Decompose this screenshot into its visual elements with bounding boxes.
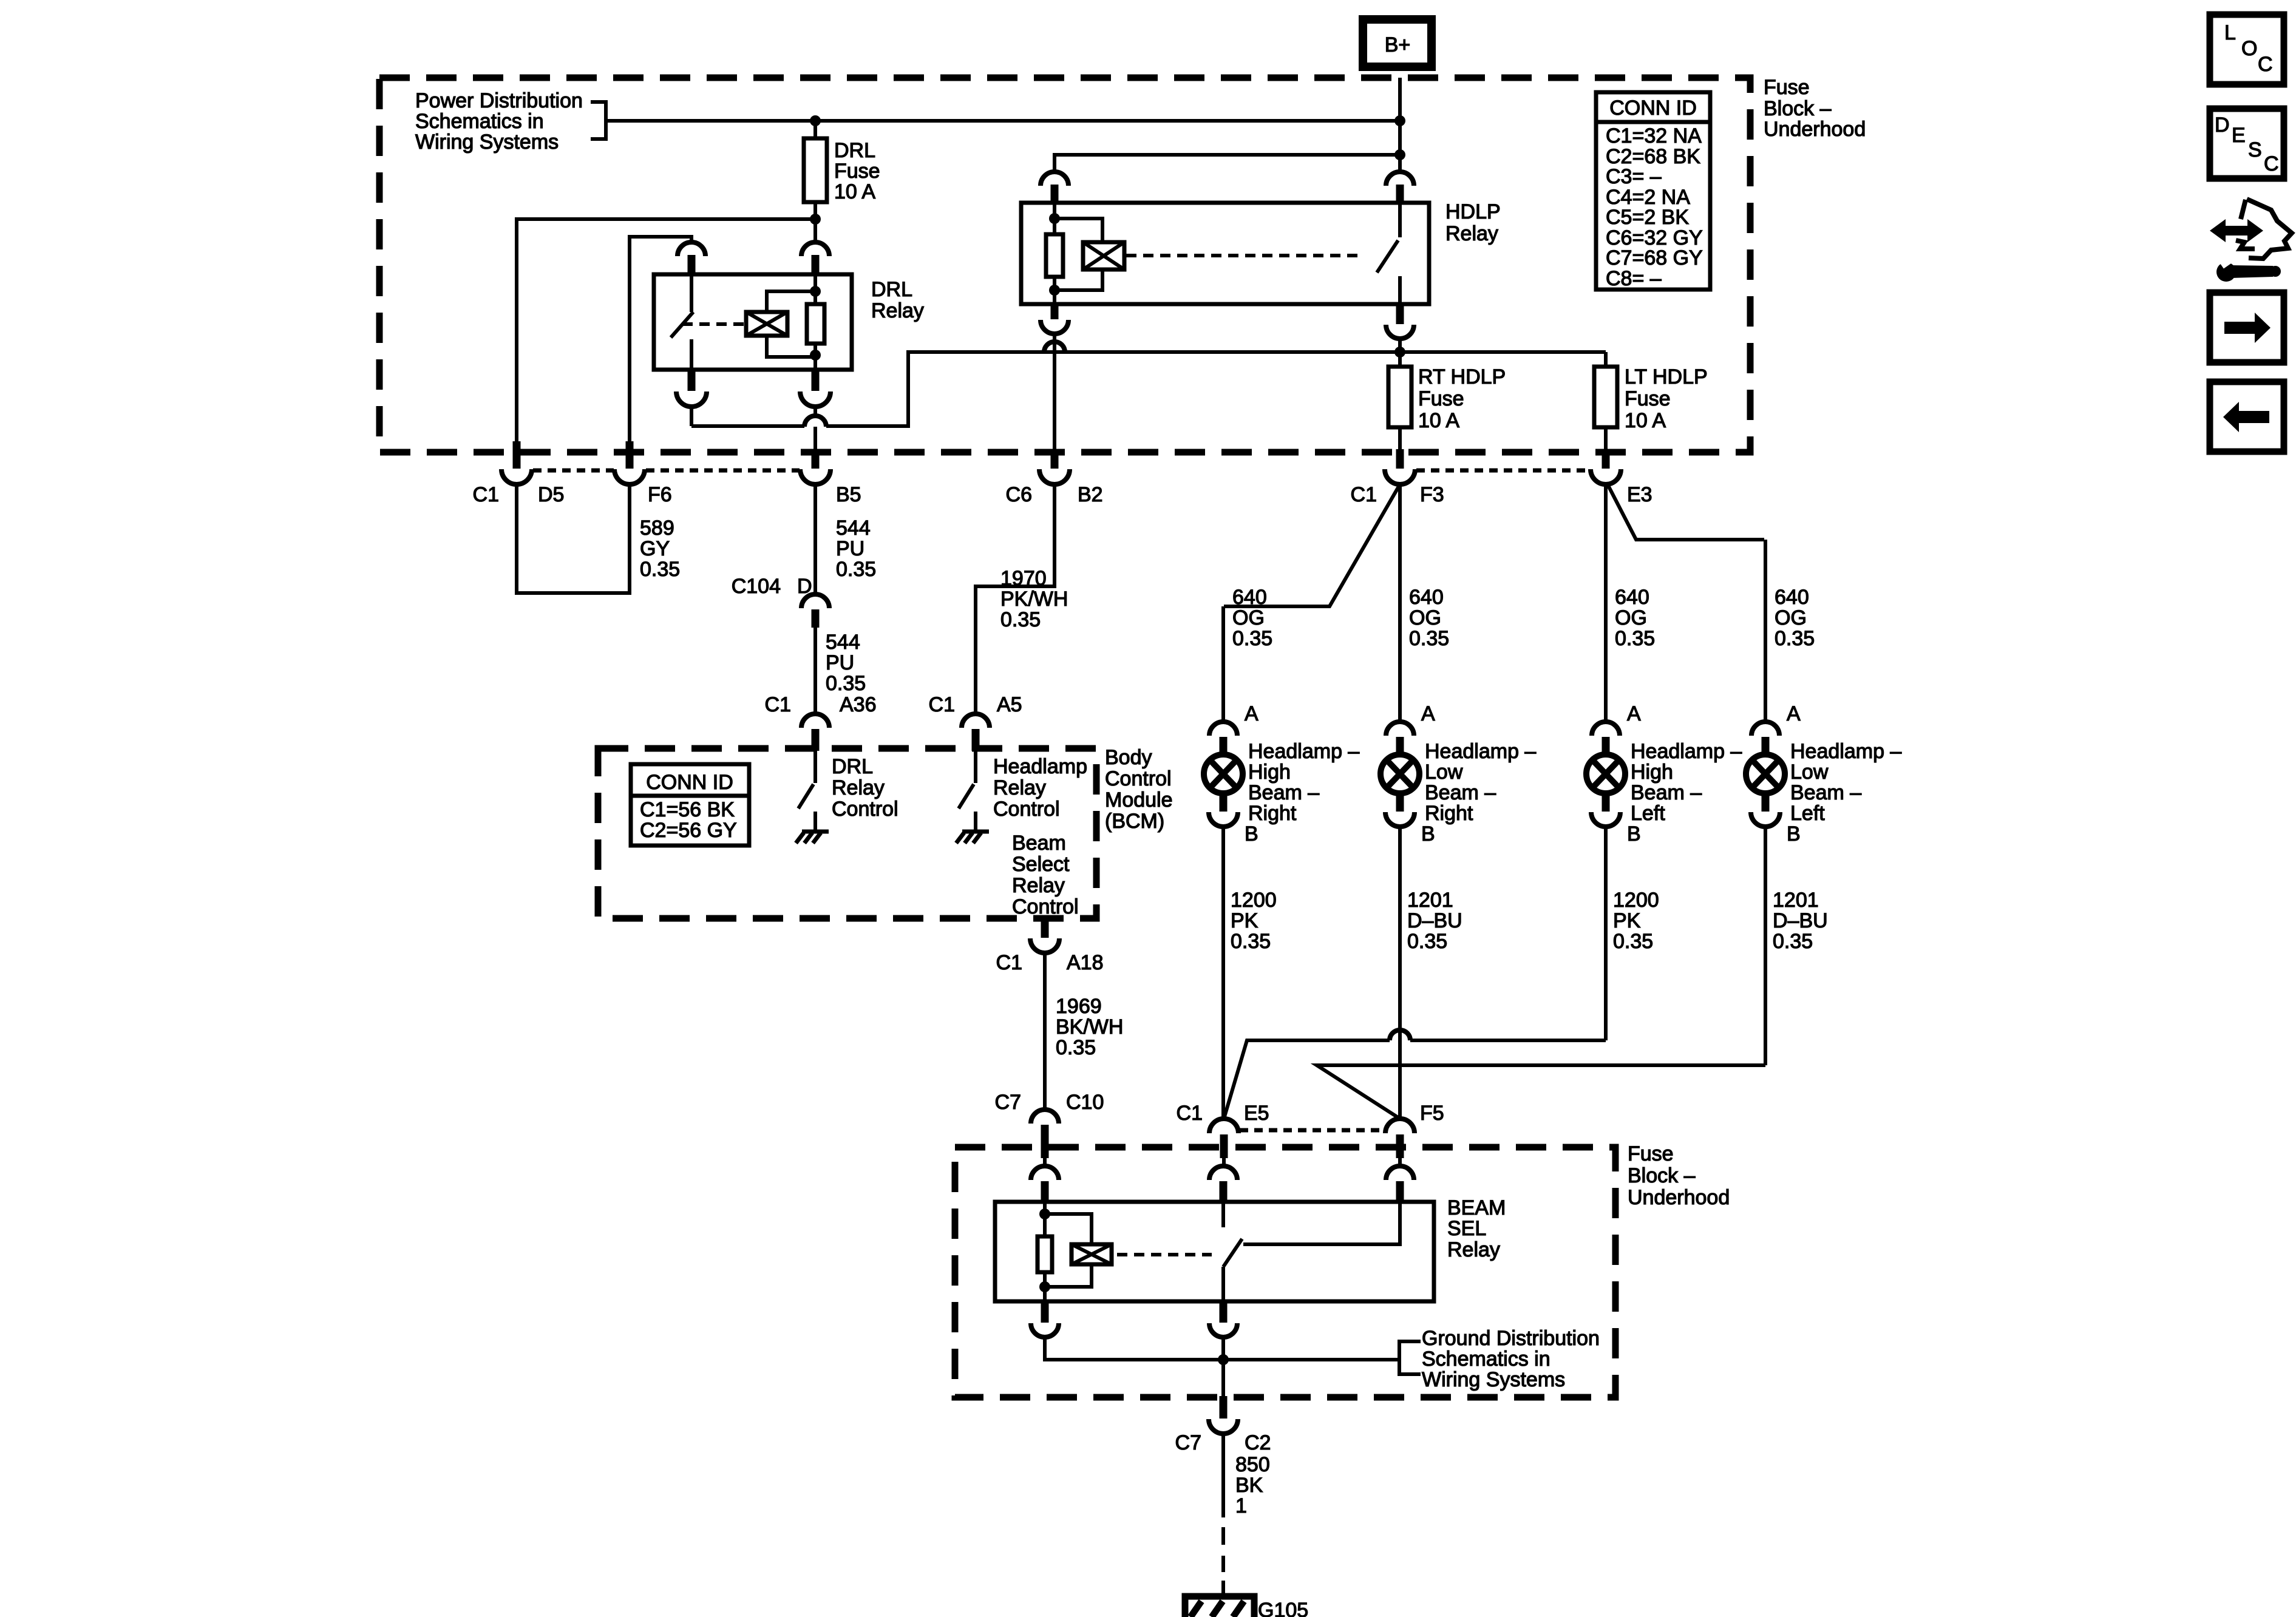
- svg-text:PU: PU: [836, 537, 864, 560]
- svg-text:BK: BK: [1235, 1474, 1263, 1497]
- connector pin: HDLP relay coil top (dome): [1041, 172, 1068, 186]
- svg-text:B2: B2: [1078, 483, 1103, 506]
- icon: DESC box: [2210, 109, 2284, 178]
- svg-text:Relay: Relay: [1445, 222, 1498, 245]
- svg-text:Beam –: Beam –: [1631, 781, 1702, 804]
- coil: beam sel relay winding: [1072, 1244, 1112, 1264]
- wire: DRL fuse to DRL relay coil pin: [813, 219, 817, 242]
- svg-text:C1=32 NA: C1=32 NA: [1606, 124, 1702, 147]
- svg-text:A36: A36: [840, 693, 877, 716]
- svg-text:D–BU: D–BU: [1773, 909, 1828, 932]
- svg-text:DRL: DRL: [834, 139, 875, 162]
- battery terminal B+: [1363, 19, 1432, 67]
- svg-text:Underhood: Underhood: [1628, 1186, 1730, 1209]
- svg-text:SEL: SEL: [1447, 1217, 1486, 1240]
- svg-text:1970: 1970: [1000, 567, 1047, 590]
- svg-text:544: 544: [826, 631, 860, 654]
- dotted connector row line (right group): [1416, 469, 1590, 473]
- svg-text:D5: D5: [538, 483, 564, 506]
- callout bracket: Ground Distribution: [1399, 1341, 1421, 1374]
- svg-text:C7: C7: [1175, 1431, 1201, 1454]
- svg-text:10 A: 10 A: [1418, 409, 1459, 432]
- svg-text:Fuse: Fuse: [834, 160, 880, 183]
- wire: B5 to C104: [813, 484, 817, 594]
- svg-text:A: A: [1245, 702, 1258, 725]
- connector pin: DRL relay coil top (dome): [801, 242, 829, 256]
- svg-text:C6: C6: [1006, 483, 1032, 506]
- svg-text:OG: OG: [1615, 606, 1647, 629]
- wire: fuse output bus left: [517, 219, 815, 441]
- node: DRL fuse junction on bus: [810, 115, 821, 126]
- svg-text:1969: 1969: [1056, 995, 1102, 1018]
- wire: D5-F6 loop: [517, 484, 630, 593]
- svg-text:Fuse: Fuse: [1418, 387, 1464, 410]
- svg-text:F5: F5: [1420, 1102, 1444, 1125]
- svg-text:C8= –: C8= –: [1606, 267, 1662, 290]
- connector row: B5 (stub+cup): [812, 449, 820, 469]
- wire: B5 column to border: [813, 427, 817, 449]
- svg-text:C1=56 BK: C1=56 BK: [640, 798, 735, 821]
- svg-text:Headlamp: Headlamp: [993, 755, 1087, 778]
- svg-text:Beam –: Beam –: [1790, 781, 1861, 804]
- crossover hop: feed bus over C6 column: [1044, 342, 1065, 352]
- wire: HDLP feed bus: [1055, 155, 1400, 172]
- svg-text:640: 640: [1615, 586, 1649, 609]
- svg-text:A5: A5: [997, 693, 1022, 716]
- resistor: HDLP relay: [1046, 203, 1063, 304]
- svg-text:A: A: [1421, 702, 1435, 725]
- connector: F5 (dome+stub): [1385, 1119, 1415, 1133]
- ground: DRL relay control (chassis): [796, 812, 829, 843]
- svg-text:Relay: Relay: [832, 776, 885, 799]
- connector pin: BCM A18 out (stub+cup): [1041, 918, 1049, 938]
- svg-text:BEAM: BEAM: [1447, 1196, 1506, 1219]
- svg-text:Body: Body: [1105, 746, 1152, 769]
- connector pin: HDLP switch bottom (cup): [1396, 304, 1404, 324]
- connector pin: beam sel common gnd (stub+cup): [1220, 1301, 1228, 1323]
- svg-text:E3: E3: [1627, 483, 1652, 506]
- svg-text:Wiring Systems: Wiring Systems: [1422, 1368, 1565, 1391]
- connector: C104 (dome+stub): [801, 594, 829, 608]
- svg-text:C5=2 BK: C5=2 BK: [1606, 206, 1689, 229]
- svg-text:C1: C1: [1177, 1102, 1203, 1125]
- connector row: F6 (stub+cup): [626, 441, 634, 469]
- node: beam sel coil bottom: [1039, 1281, 1050, 1292]
- svg-text:B: B: [1421, 822, 1435, 846]
- fuse block underhood (top) dashed border: [379, 78, 1750, 452]
- wire: HDLP output to fuse bus: [1398, 339, 1402, 367]
- svg-text:C1: C1: [765, 693, 791, 716]
- svg-text:DRL: DRL: [871, 278, 912, 301]
- table: CONN ID (fuse block underhood): [1596, 92, 1710, 290]
- svg-text:Beam –: Beam –: [1248, 781, 1319, 804]
- wire: C2 to G105 (part dashed): [1221, 1434, 1225, 1517]
- svg-text:1201: 1201: [1407, 889, 1453, 912]
- svg-text:PK: PK: [1613, 909, 1641, 932]
- svg-text:Fuse: Fuse: [1628, 1142, 1674, 1165]
- connector row: C6 B2 (stub+cup): [1051, 449, 1059, 469]
- wire: col4 jog to F5: [1764, 827, 1767, 1065]
- svg-text:0.35: 0.35: [1232, 627, 1272, 650]
- svg-text:Relay: Relay: [993, 776, 1046, 799]
- switch: DRL relay control driver: [798, 751, 815, 808]
- node: DRL coil bottom: [810, 350, 821, 361]
- wire: RT fuse to border: [1398, 427, 1402, 449]
- svg-text:Power Distribution: Power Distribution: [415, 89, 583, 112]
- svg-text:G105: G105: [1258, 1599, 1308, 1617]
- svg-text:Fuse: Fuse: [1625, 387, 1671, 410]
- wire: HDLP coil branch top: [1055, 219, 1102, 242]
- svg-text:0.35: 0.35: [1773, 930, 1813, 953]
- connector: C1 A36 (dome+stub): [801, 714, 829, 728]
- node: B+ / main bus junction: [1394, 115, 1405, 126]
- svg-text:B5: B5: [836, 483, 861, 506]
- svg-text:A: A: [1787, 702, 1801, 725]
- svg-text:0.35: 0.35: [1231, 930, 1271, 953]
- node: beam sel coil top: [1039, 1209, 1050, 1219]
- svg-text:544: 544: [836, 517, 871, 540]
- connector: C1 E5 (dome+stub): [1209, 1119, 1238, 1133]
- wire: beam sel coil branch bottom: [1045, 1264, 1092, 1287]
- wire: F3 to col2: [1398, 484, 1402, 722]
- node: ground bus junction: [1218, 1354, 1229, 1365]
- wire: col1 to E5: [1221, 827, 1225, 1119]
- svg-text:C1: C1: [473, 483, 499, 506]
- svg-text:F6: F6: [648, 483, 672, 506]
- svg-text:1200: 1200: [1613, 889, 1659, 912]
- svg-text:OG: OG: [1409, 606, 1441, 629]
- connector pin: beam sel coil in (dome+stub): [1031, 1166, 1059, 1180]
- relay box: BEAM SEL Relay: [995, 1202, 1434, 1301]
- svg-text:C10: C10: [1066, 1091, 1104, 1114]
- wire: coil branch top: [767, 291, 815, 312]
- icon: back arrow box: [2210, 382, 2284, 452]
- svg-text:D: D: [2215, 114, 2230, 137]
- svg-text:Ground Distribution: Ground Distribution: [1422, 1327, 1600, 1350]
- svg-text:L: L: [2224, 21, 2236, 44]
- svg-text:Wiring Systems: Wiring Systems: [415, 131, 559, 154]
- lamp: headlamp low beam right: [1381, 722, 1419, 827]
- svg-text:Low: Low: [1790, 761, 1829, 784]
- switch: DRL relay contact: [671, 274, 693, 370]
- svg-text:Right: Right: [1425, 802, 1473, 825]
- svg-text:Low: Low: [1425, 761, 1463, 784]
- table: CONN ID (BCM): [631, 764, 749, 846]
- relay box: HDLP Relay: [1021, 203, 1429, 304]
- svg-text:0.35: 0.35: [640, 558, 680, 581]
- svg-text:B: B: [1245, 822, 1258, 846]
- svg-text:Headlamp –: Headlamp –: [1248, 740, 1359, 763]
- svg-text:C7=68 GY: C7=68 GY: [1606, 246, 1703, 269]
- node: headlamp fuse bus junction: [1394, 347, 1405, 358]
- dotted connector row line (E5-F5): [1240, 1128, 1384, 1133]
- wire: ground bus: [1045, 1337, 1399, 1360]
- svg-text:OG: OG: [1232, 606, 1265, 629]
- lamp: headlamp low beam left: [1746, 722, 1785, 827]
- connector pin: beam sel E5 in (dome+stub): [1209, 1166, 1237, 1180]
- svg-text:0.35: 0.35: [826, 672, 866, 695]
- svg-text:Block –: Block –: [1628, 1164, 1696, 1187]
- svg-text:C3= –: C3= –: [1606, 165, 1662, 188]
- svg-text:Select: Select: [1012, 853, 1070, 876]
- coil: HDLP relay winding: [1083, 242, 1124, 269]
- svg-text:Control: Control: [1012, 895, 1079, 918]
- svg-text:BK/WH: BK/WH: [1056, 1015, 1123, 1039]
- node: HDLP feed junction: [1394, 149, 1405, 160]
- svg-text:GY: GY: [640, 537, 670, 560]
- svg-text:C: C: [2258, 53, 2273, 76]
- svg-text:C1: C1: [1351, 483, 1377, 506]
- connector row: E3 (stub+cup): [1602, 449, 1610, 469]
- relay box: DRL Relay: [654, 274, 852, 370]
- wire: bus to DRL fuse: [813, 121, 817, 138]
- coil: DRL relay winding: [746, 312, 787, 336]
- wire: C6 column through bus hop: [1053, 334, 1056, 449]
- connector row: C1 D5 (stub+cup): [513, 441, 521, 469]
- dashed actuator link: DRL relay: [682, 322, 746, 326]
- svg-text:(BCM): (BCM): [1105, 810, 1164, 833]
- wire: col2 to F5: [1398, 827, 1402, 1119]
- svg-text:Underhood: Underhood: [1764, 118, 1866, 141]
- svg-text:CONN ID: CONN ID: [646, 771, 733, 794]
- node: DRL coil top: [810, 286, 821, 297]
- wire: E3 to col3: [1604, 483, 1608, 722]
- svg-text:Relay: Relay: [871, 299, 924, 322]
- svg-text:0.35: 0.35: [1056, 1036, 1096, 1059]
- wire: B+ column down to HDLP switch pin: [1398, 121, 1402, 172]
- wire: coil branch bottom: [767, 336, 815, 357]
- wire: DRL relay output bus: [691, 424, 804, 428]
- wire: DRL fuse to junction: [813, 202, 817, 219]
- connector: B5 branch dome: [804, 416, 826, 427]
- wire: switch bottom down: [690, 407, 693, 426]
- svg-text:HDLP: HDLP: [1445, 200, 1501, 223]
- svg-text:10 A: 10 A: [834, 180, 875, 203]
- svg-text:DRL: DRL: [832, 755, 873, 778]
- icon: next arrow box: [2210, 293, 2284, 362]
- svg-text:Schematics in: Schematics in: [415, 110, 544, 133]
- wire: C6 wire jog to A5: [976, 484, 1055, 714]
- svg-text:High: High: [1248, 761, 1291, 784]
- dotted connector row line (left group): [533, 469, 614, 473]
- svg-text:High: High: [1631, 761, 1673, 784]
- node: HDLP coil bottom: [1049, 285, 1060, 296]
- node: HDLP coil top: [1049, 213, 1060, 224]
- svg-text:10 A: 10 A: [1625, 409, 1666, 432]
- svg-text:S: S: [2248, 138, 2262, 161]
- svg-text:Beam: Beam: [1012, 832, 1066, 855]
- resistor: beam sel relay: [1038, 1202, 1052, 1301]
- svg-text:LT HDLP: LT HDLP: [1625, 365, 1708, 388]
- svg-text:Control: Control: [1105, 767, 1172, 790]
- svg-text:Right: Right: [1248, 802, 1297, 825]
- wire: ground bus to C2: [1221, 1360, 1225, 1396]
- svg-text:C2: C2: [1245, 1431, 1271, 1454]
- svg-text:Relay: Relay: [1447, 1238, 1500, 1261]
- fuse: DRL Fuse 10A: [804, 138, 827, 202]
- svg-text:B: B: [1787, 822, 1801, 846]
- wire: B+ down to main bus: [1398, 78, 1402, 121]
- svg-text:B: B: [1627, 822, 1641, 846]
- connector pin: HDLP coil bottom (cup): [1051, 304, 1059, 319]
- svg-text:C: C: [2264, 152, 2279, 175]
- connector pin: DRL relay coil bottom (cup): [812, 370, 820, 391]
- svg-text:A18: A18: [1067, 951, 1104, 974]
- svg-text:Relay: Relay: [1012, 874, 1065, 897]
- svg-text:0.35: 0.35: [1613, 930, 1653, 953]
- connector pin: beam sel F5 in (dome+stub): [1386, 1166, 1414, 1180]
- svg-text:0.35: 0.35: [1615, 627, 1655, 650]
- node: below DRL fuse: [810, 214, 821, 225]
- wire: beam sel coil branch top: [1045, 1214, 1092, 1244]
- connector pin: HDLP relay switch top (dome): [1386, 172, 1414, 186]
- svg-text:C2=56 GY: C2=56 GY: [640, 819, 737, 842]
- svg-text:E5: E5: [1244, 1102, 1269, 1125]
- svg-text:RT HDLP: RT HDLP: [1418, 365, 1506, 388]
- callout bracket: Power Distribution Schematics: [591, 102, 606, 139]
- svg-text:640: 640: [1775, 586, 1809, 609]
- svg-text:Fuse: Fuse: [1764, 76, 1810, 99]
- svg-text:850: 850: [1235, 1453, 1270, 1476]
- svg-text:OG: OG: [1775, 606, 1807, 629]
- lamp: headlamp high beam right: [1204, 722, 1243, 827]
- dashed actuator link: HDLP relay: [1126, 254, 1361, 257]
- icon: adjust/repair (hand with arrow and wrench): [2210, 199, 2292, 282]
- wire: F6 jumper to DRL relay switch pin: [630, 237, 691, 441]
- svg-text:C104: C104: [732, 575, 781, 598]
- switch: beam sel relay contact: [1223, 1202, 1400, 1301]
- svg-text:0.35: 0.35: [1407, 930, 1447, 953]
- ground: headlamp relay control (chassis): [956, 812, 989, 843]
- fuse: LT HDLP Fuse 10A: [1594, 352, 1617, 449]
- svg-text:C7: C7: [995, 1091, 1021, 1114]
- svg-text:Schematics in: Schematics in: [1422, 1347, 1550, 1371]
- svg-text:Headlamp –: Headlamp –: [1631, 740, 1742, 763]
- svg-text:A: A: [1627, 702, 1641, 725]
- icon: LOC box: [2210, 15, 2284, 84]
- connector: C1 A5 (dome+stub): [962, 714, 990, 728]
- svg-text:Beam –: Beam –: [1425, 781, 1496, 804]
- svg-text:PK: PK: [1231, 909, 1258, 932]
- svg-text:F3: F3: [1420, 483, 1444, 506]
- BCM dashed box: [598, 748, 1096, 918]
- fuse block underhood (bottom) dashed border: [955, 1147, 1615, 1397]
- svg-text:PU: PU: [826, 651, 854, 674]
- svg-text:Control: Control: [832, 798, 898, 821]
- svg-text:0.35: 0.35: [1775, 627, 1815, 650]
- svg-text:D–BU: D–BU: [1407, 909, 1462, 932]
- svg-text:0.35: 0.35: [1000, 608, 1041, 631]
- fuse: RT HDLP Fuse 10A: [1388, 367, 1411, 427]
- wire: E3 branch to col4 (diagonal+jog): [1608, 484, 1764, 540]
- ground: G105: [1185, 1596, 1254, 1617]
- svg-text:CONN ID: CONN ID: [1609, 97, 1697, 120]
- svg-text:Left: Left: [1790, 802, 1825, 825]
- wire: C104 to BCM A36: [813, 628, 817, 714]
- svg-text:0.35: 0.35: [836, 558, 876, 581]
- svg-text:O: O: [2241, 37, 2257, 60]
- wire: F3 branch to col1 (diagonal+jog): [1224, 484, 1400, 606]
- connector pin: DRL relay switch top (dome): [678, 242, 705, 256]
- lamp: headlamp high beam left: [1586, 722, 1625, 827]
- svg-text:B+: B+: [1385, 33, 1411, 56]
- switch: HDLP relay contact: [1377, 203, 1400, 304]
- wire: A18 to C10: [1043, 953, 1047, 1110]
- svg-text:Left: Left: [1631, 802, 1665, 825]
- switch: headlamp relay control driver: [959, 751, 976, 808]
- svg-text:PK/WH: PK/WH: [1000, 588, 1068, 611]
- svg-text:Module: Module: [1105, 788, 1173, 812]
- connector row: C1 F3 (stub+cup): [1396, 449, 1404, 469]
- wire: col3 jog to E5: [1604, 827, 1608, 1040]
- svg-text:640: 640: [1409, 586, 1444, 609]
- wire: HDLP coil branch bottom: [1055, 269, 1102, 290]
- svg-text:C1: C1: [996, 951, 1022, 974]
- dashed actuator link: beam sel relay: [1117, 1253, 1212, 1256]
- svg-text:E: E: [2232, 124, 2246, 147]
- svg-text:0.35: 0.35: [1409, 627, 1449, 650]
- svg-text:589: 589: [640, 517, 674, 540]
- svg-text:Block –: Block –: [1764, 97, 1832, 120]
- svg-text:640: 640: [1232, 586, 1267, 609]
- svg-text:Control: Control: [993, 798, 1060, 821]
- connector pin: beam sel coil gnd (stub+cup): [1041, 1301, 1049, 1323]
- wire: main power bus: [606, 119, 1400, 123]
- svg-text:1200: 1200: [1231, 889, 1277, 912]
- svg-text:Headlamp –: Headlamp –: [1425, 740, 1536, 763]
- connector pin: DRL relay switch bottom (cup): [688, 370, 696, 391]
- svg-text:1201: 1201: [1773, 889, 1819, 912]
- svg-text:1: 1: [1235, 1494, 1247, 1517]
- svg-text:C1: C1: [929, 693, 955, 716]
- resistor: DRL relay: [807, 274, 824, 370]
- crossover hop: col3 feed over col2 wire: [1390, 1030, 1410, 1040]
- connector: C7 C2 (stub+cup): [1220, 1396, 1228, 1419]
- svg-text:Headlamp –: Headlamp –: [1790, 740, 1901, 763]
- connector: C7 C10 (dome+stub): [1031, 1110, 1059, 1124]
